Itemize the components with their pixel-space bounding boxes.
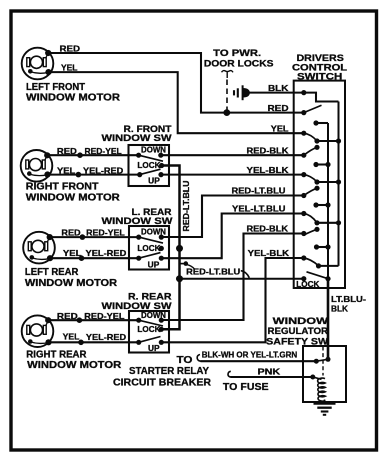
safety switch blade and contacts [314, 357, 331, 364]
svg-text:RED-BLK: RED-BLK [247, 224, 289, 234]
svg-text:UP: UP [148, 344, 160, 353]
svg-text:YEL-LT.BLU: YEL-LT.BLU [232, 204, 286, 214]
wire YEL-LT.BLU from drivers switch down to left rear switch UP [161, 214, 303, 259]
label L. REAR WINDOW SW [102, 206, 173, 226]
svg-text:WINDOW SW: WINDOW SW [102, 300, 172, 311]
node RED-BLK input dot [301, 153, 306, 158]
splice dot RED to RED-YEL right rear [77, 317, 83, 323]
svg-text:RED: RED [61, 228, 80, 238]
svg-text:PNK: PNK [258, 367, 281, 377]
rocker A upper contact pair [313, 120, 328, 125]
svg-text:WINDOW SW: WINDOW SW [102, 215, 173, 226]
wire LT.BLU-BLK from drivers LOCK down to safety switch [327, 279, 330, 360]
svg-text:BLK: BLK [331, 303, 348, 313]
svg-text:BLK-WH OR YEL-LT.GRN: BLK-WH OR YEL-LT.GRN [202, 350, 298, 360]
wire YEL-RED right rear motor to switch [49, 341, 139, 343]
wire BLK from bullet connector to drivers switch [250, 92, 304, 94]
lock feed wire RED-LT.BLU from bus to drivers switch LOCK contact [180, 278, 304, 280]
leader curve from RED-LT.BLU label to lock feed wire [241, 271, 250, 278]
svg-text:RED: RED [57, 311, 78, 321]
splice dot YEL to YEL-RED right rear [78, 340, 84, 346]
splice dot YEL to YEL-RED left rear [79, 255, 85, 261]
rocker D upper contact pair [314, 244, 331, 249]
svg-text:RIGHT REAR: RIGHT REAR [26, 349, 86, 360]
junction dot on RED wire at door locks tap [223, 109, 230, 116]
svg-text:STARTER RELAY: STARTER RELAY [129, 366, 209, 377]
inner bus1 vertical to safety switch labeled LT.BLU-BLK [327, 123, 329, 279]
svg-text:LOCK: LOCK [137, 244, 160, 253]
svg-text:UP: UP [148, 177, 160, 186]
right front window switch box [129, 145, 170, 186]
motor M4 right rear window motor [22, 315, 54, 347]
wire RED-YEL right rear motor to switch [48, 319, 139, 321]
svg-text:RED-BLK: RED-BLK [247, 145, 289, 155]
svg-text:SAFETY SW: SAFETY SW [266, 335, 328, 346]
node RED input dot [301, 110, 306, 115]
inline bullet connector on BLK wire [234, 85, 250, 100]
svg-text:TO PWR.: TO PWR. [213, 47, 261, 58]
splice dot RED to RED-YEL [77, 152, 83, 158]
node LOCK blade pivot on bus1 [325, 276, 330, 281]
safety switch solenoid coil [318, 378, 326, 401]
node YEL-LT.BLU input dot [301, 211, 306, 216]
label STARTER RELAY CIRCUIT BREAKER [113, 366, 211, 389]
leader dot and stub marking lock bus [180, 261, 195, 269]
splice dot RED to RED-YEL left rear [80, 234, 86, 240]
rocker D center contact to bus2 end [316, 263, 339, 268]
svg-text:TO: TO [177, 355, 193, 366]
junction dot lock bus to lock feed wire [176, 275, 183, 282]
svg-text:WINDOW MOTOR: WINDOW MOTOR [26, 193, 120, 204]
label R. FRONT WINDOW SW [102, 123, 172, 143]
rocker B upper contact pair [313, 162, 330, 167]
motor M1 left front window motor [22, 48, 54, 80]
wire YEL-RED left rear motor to switch [50, 257, 139, 259]
svg-text:WINDOW MOTOR: WINDOW MOTOR [27, 360, 121, 371]
wire BLK feed step to inner bus2 [304, 93, 339, 102]
svg-text:RED-YEL: RED-YEL [84, 311, 124, 321]
label LT.BLU-BLK [331, 294, 366, 313]
node YEL-BLK input dot [301, 172, 306, 177]
svg-text:LOCK: LOCK [137, 161, 160, 170]
rocker A center contacts to bus2 [314, 138, 341, 150]
svg-text:YEL-BLK: YEL-BLK [247, 165, 289, 175]
label LEFT REAR WINDOW MOTOR [25, 267, 117, 289]
label DRIVERS CONTROL SWITCH [292, 52, 347, 81]
svg-text:LOCK: LOCK [296, 280, 319, 289]
blade YEL-BLK to rocker B center [304, 175, 317, 182]
wire RED-YEL right front motor to switch [47, 154, 138, 156]
junction dot lock bus to left rear switch LOCK [176, 245, 183, 252]
svg-text:RED: RED [268, 103, 289, 113]
svg-text:LEFT REAR: LEFT REAR [25, 267, 79, 278]
left rear window switch box [129, 226, 169, 270]
right front switch contacts and blades [136, 153, 164, 178]
svg-text:RED-LT.BLU: RED-LT.BLU [232, 186, 286, 196]
svg-text:LEFT FRONT: LEFT FRONT [26, 82, 85, 93]
node RED-BLK second input dot [301, 231, 306, 236]
wire RED-BLK from right front switch DOWN to drivers switch [161, 154, 304, 156]
blade rocker B to RED-LT.BLU input [304, 188, 317, 195]
right rear window switch box [129, 311, 169, 353]
blade YEL-BLK second to rocker D center [304, 258, 318, 266]
svg-text:YEL-RED: YEL-RED [86, 248, 127, 258]
label RIGHT REAR WINDOW MOTOR [26, 349, 121, 371]
svg-text:RED-YEL: RED-YEL [86, 228, 125, 238]
svg-text:YEL-RED: YEL-RED [86, 332, 126, 342]
label TO PWR. DOOR LOCKS [204, 47, 274, 69]
off-page connector symbol to power door locks [222, 71, 234, 78]
link from PNK dot to coil [313, 377, 322, 379]
blade rocker A to RED-BLK input [304, 147, 317, 155]
svg-text:DOWN: DOWN [141, 228, 166, 237]
svg-text:RED-LT.BLU: RED-LT.BLU [181, 181, 191, 232]
label RIGHT FRONT WINDOW MOTOR [26, 181, 120, 203]
hook at start of BLK-WH wire to starter relay circuit breaker [197, 355, 201, 362]
hook at start of PNK wire to fuse [228, 371, 231, 377]
node YEL input dot [301, 131, 306, 136]
drivers control switch box [294, 81, 345, 288]
wire RED from left front motor to drivers switch RED input [48, 53, 304, 113]
blade YEL to rocker A center [304, 133, 317, 141]
ground symbol below safety switch [314, 400, 336, 415]
wire RED-YEL left rear motor to switch [50, 236, 139, 238]
node RED-LT.BLU input dot [301, 193, 306, 198]
wire YEL-BLK from drivers switch down to right rear switch UP [161, 258, 303, 342]
left rear switch contacts and blades [136, 235, 164, 261]
svg-text:BLK: BLK [268, 83, 288, 93]
motor M3 left rear window motor [23, 232, 55, 264]
window regulator safety switch box [303, 346, 346, 402]
wire BLK-WH OR YEL-LT.GRN to safety switch [201, 360, 317, 362]
rocker B center contacts to bus2 [314, 179, 341, 190]
blade LOCK switch [307, 272, 329, 279]
motor M2 right front window motor [21, 150, 53, 182]
node LOCK contact dot [301, 276, 306, 281]
wire YEL from left front motor to drivers switch YEL input [49, 72, 304, 133]
svg-text:YEL: YEL [57, 166, 75, 176]
rocker C upper contact pair [313, 202, 330, 207]
svg-text:WINDOW MOTOR: WINDOW MOTOR [25, 278, 117, 289]
right rear switch contacts and blades [136, 318, 164, 345]
splice dot YEL to YEL-RED [76, 172, 82, 178]
dashed mechanical link in safety switch [322, 347, 324, 376]
blade rocker C to RED-BLK second input [304, 229, 317, 235]
svg-text:TO FUSE: TO FUSE [223, 382, 269, 393]
svg-text:YEL-RED: YEL-RED [83, 166, 123, 176]
label LEFT FRONT WINDOW MOTOR [26, 82, 120, 104]
wire RED-BLK from drivers switch down to right rear switch DOWN [161, 234, 303, 321]
rocker C center contacts to bus2 [314, 220, 341, 232]
wire YEL-BLK from right front switch UP to drivers switch [161, 174, 304, 176]
svg-text:YEL: YEL [271, 123, 289, 133]
svg-text:YEL: YEL [63, 248, 82, 258]
svg-text:YEL: YEL [63, 332, 80, 342]
lock bus wire from right front switch LOCK down to right rear switch LOCK [161, 166, 179, 330]
node PNK input dot in safety switch [310, 375, 315, 380]
label WINDOW REGULATOR SAFETY SW [266, 315, 328, 347]
dashed tap wire from RED wire to door locks connector [226, 80, 228, 111]
svg-text:WINDOW MOTOR: WINDOW MOTOR [26, 93, 120, 104]
svg-text:DOWN: DOWN [141, 311, 166, 320]
svg-text:CIRCUIT BREAKER: CIRCUIT BREAKER [113, 377, 211, 388]
label R. REAR WINDOW SW [102, 290, 172, 311]
svg-text:UP: UP [148, 260, 160, 269]
svg-text:RED-YEL: RED-YEL [85, 146, 122, 156]
svg-text:LOCK: LOCK [137, 325, 160, 334]
svg-text:YEL-BLK: YEL-BLK [248, 248, 290, 258]
inner bus2 vertical [338, 102, 340, 266]
svg-text:RIGHT FRONT: RIGHT FRONT [26, 181, 99, 192]
node BLK input dot [301, 90, 306, 95]
svg-text:YEL: YEL [61, 63, 78, 73]
wire YEL-RED right front motor to switch [48, 174, 140, 176]
node YEL-BLK second input dot [301, 255, 306, 260]
svg-text:DOOR LOCKS: DOOR LOCKS [204, 58, 274, 69]
wire RED-LT.BLU from drivers switch down to left rear switch DOWN [161, 196, 303, 238]
wire PNK to safety switch coil [231, 376, 313, 378]
blade RED master switch open [304, 105, 322, 112]
svg-text:RED: RED [57, 146, 77, 156]
svg-text:RED: RED [60, 44, 81, 54]
blade YEL-LT.BLU to rocker C center [304, 214, 317, 223]
svg-text:DOWN: DOWN [141, 145, 166, 154]
svg-text:WINDOW SW: WINDOW SW [102, 132, 172, 143]
